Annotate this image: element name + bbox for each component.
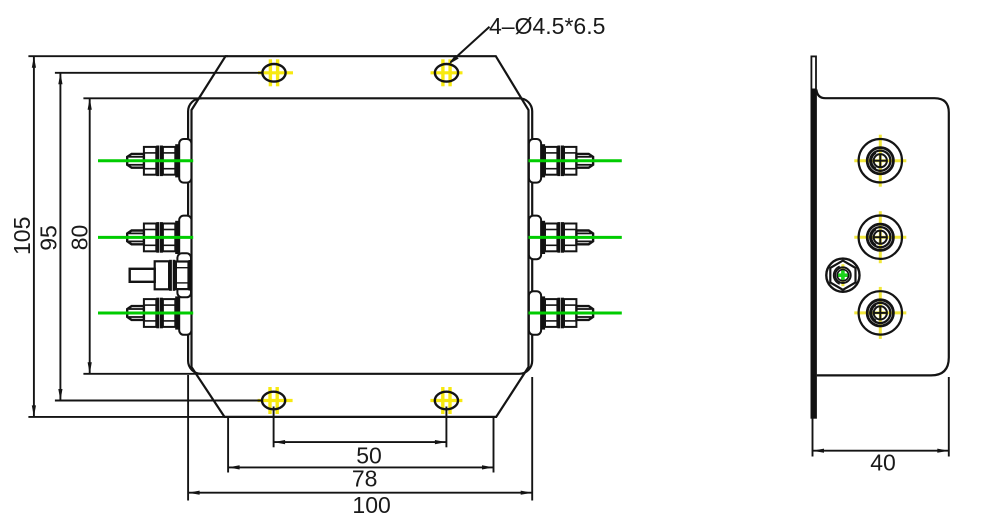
ext line bottom 95 bbox=[55, 400, 262, 402]
ext line top 105 bbox=[28, 55, 228, 57]
mounting hole bottom-left bbox=[258, 387, 293, 414]
green centerline terminal row 3 right bbox=[528, 312, 621, 315]
flange plate dark lower part bbox=[811, 89, 816, 418]
dim line 50 bbox=[274, 441, 447, 443]
svg-text:95: 95 bbox=[36, 225, 62, 251]
ext line 50 right bbox=[445, 407, 447, 448]
ext line 50 left bbox=[273, 407, 275, 448]
ext line 78 right bbox=[493, 418, 495, 473]
mounting hole bottom-right bbox=[430, 387, 462, 414]
ground stud L (plain) bbox=[130, 253, 192, 297]
side ground stud circle bbox=[826, 259, 859, 292]
green centerline terminal row 1 right bbox=[528, 159, 621, 162]
svg-text:100: 100 bbox=[352, 492, 390, 518]
ext line 100 right bbox=[531, 377, 533, 501]
terminal stud R2 bbox=[529, 216, 593, 260]
side terminal circle 3 bbox=[854, 287, 906, 339]
ext line 40 right bbox=[948, 377, 950, 457]
dim line 78 bbox=[228, 466, 493, 468]
svg-text:80: 80 bbox=[67, 225, 93, 251]
body outline (side) bbox=[816, 90, 948, 376]
side terminal circle 1 bbox=[854, 135, 906, 187]
terminal stud L2 bbox=[127, 216, 191, 260]
terminal stud R3 bbox=[529, 291, 593, 335]
dim line 100 bbox=[188, 492, 532, 494]
ext line top 80 bbox=[83, 97, 202, 99]
terminal stud L1 bbox=[127, 139, 191, 183]
green centerline terminal row 3 left bbox=[98, 312, 193, 315]
dim line 40 bbox=[813, 450, 949, 452]
green centerline terminal row 1 left bbox=[98, 159, 193, 162]
terminal stud R1 (mirrored) bbox=[529, 139, 593, 183]
terminal stud L3 bbox=[127, 291, 191, 335]
svg-text:4–Ø4.5*6.5: 4–Ø4.5*6.5 bbox=[489, 13, 605, 39]
filter body (front face) bbox=[188, 98, 532, 374]
mounting flange plate (octagonal outline) bbox=[192, 56, 529, 417]
dim line 105 bbox=[33, 56, 35, 417]
svg-text:105: 105 bbox=[9, 217, 35, 255]
ext line bottom 105 bbox=[28, 416, 228, 418]
flange plate (side) bbox=[811, 56, 816, 417]
green centerline terminal row 2 left bbox=[98, 236, 193, 239]
ext line 78 left bbox=[227, 418, 229, 473]
mounting hole top-left (yellow slot marks) bbox=[258, 59, 293, 86]
side terminal circle 2 bbox=[854, 211, 906, 263]
leader arrowhead bbox=[449, 55, 459, 64]
ext line 40 left bbox=[812, 418, 814, 457]
ext line bottom 80 bbox=[83, 373, 202, 375]
svg-text:50: 50 bbox=[356, 442, 382, 468]
mounting hole top-right bbox=[431, 59, 463, 86]
ext line top 95 bbox=[55, 72, 263, 74]
leader line for hole callout bbox=[451, 27, 490, 62]
green centerline terminal row 2 right bbox=[528, 236, 621, 239]
svg-text:78: 78 bbox=[352, 465, 378, 491]
dim line 95 bbox=[59, 73, 61, 401]
svg-text:40: 40 bbox=[870, 450, 896, 476]
dim line 80 bbox=[89, 98, 91, 374]
ext line 100 left bbox=[187, 375, 189, 501]
